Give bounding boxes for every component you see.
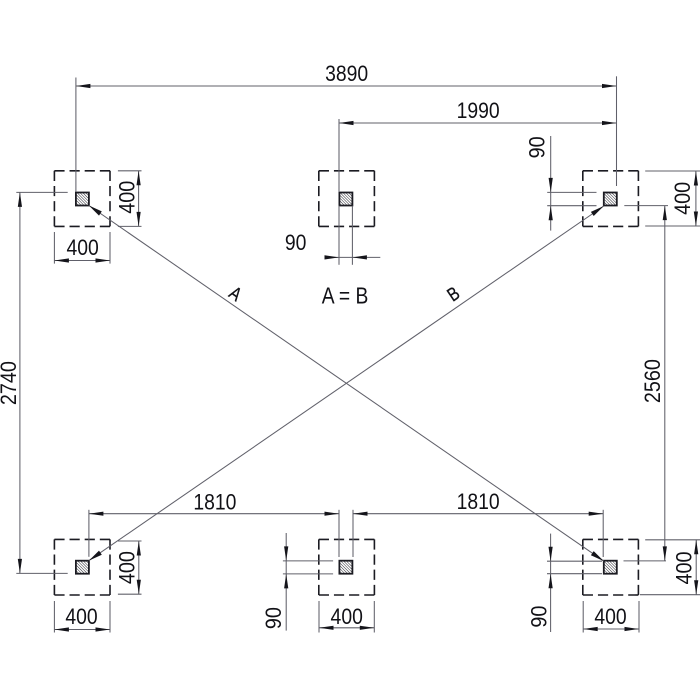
dimension 400 top-right vertical: [645, 171, 700, 226]
dimension 400 bottom-middle: [319, 601, 374, 633]
footing bottom-middle: [319, 539, 375, 595]
footing bottom-left: [54, 539, 110, 595]
dimension 1810 right: [353, 490, 603, 557]
dimension 2740 left: [0, 192, 68, 573]
svg-text:2560: 2560: [641, 359, 665, 403]
label B: [443, 282, 464, 306]
svg-text:400: 400: [331, 605, 363, 629]
dimension 90 top-middle: [285, 206, 380, 265]
svg-text:400: 400: [594, 605, 626, 629]
post top-middle: [339, 193, 352, 206]
footing top-left: [54, 171, 110, 227]
svg-text:2740: 2740: [0, 361, 21, 405]
dimension 400 top-left horizontal: [54, 232, 110, 264]
dimension 90 top-right: [525, 136, 596, 231]
svg-text:400: 400: [115, 551, 139, 584]
dimension 400 bottom-right: [583, 601, 639, 633]
post bottom-left: [76, 561, 89, 574]
dimension 2560 right: [624, 206, 669, 561]
svg-text:90: 90: [262, 607, 286, 629]
dimension 400 bottom-left vertical: [115, 541, 141, 594]
post top-left: [76, 193, 89, 206]
footing top-middle: [319, 171, 375, 227]
label A: [225, 281, 246, 305]
dimension 400 bottom-right vertical: [640, 540, 700, 595]
svg-text:1810: 1810: [457, 490, 500, 514]
svg-text:400: 400: [671, 182, 695, 215]
svg-text:1990: 1990: [457, 99, 500, 123]
svg-text:3890: 3890: [325, 62, 368, 86]
diagonal B: [89, 206, 604, 561]
svg-text:90: 90: [285, 231, 307, 255]
dimension 3890 top: [76, 62, 617, 192]
label A = B: [322, 283, 369, 309]
footing top-right: [583, 171, 639, 227]
dimension 90 bottom-right: [528, 534, 602, 632]
dimension 1810 left: [89, 490, 339, 557]
dimension 400 bottom-left: [54, 601, 110, 633]
svg-text:400: 400: [672, 551, 696, 584]
svg-text:90: 90: [525, 136, 549, 158]
dimension 1990: [339, 99, 617, 192]
svg-text:1810: 1810: [193, 490, 236, 514]
diagonal A: [89, 206, 604, 562]
dimension 400 top-left vertical: [115, 171, 141, 227]
svg-text:400: 400: [65, 605, 97, 629]
footing bottom-right: [583, 539, 639, 595]
post top-right: [604, 193, 617, 206]
svg-text:400: 400: [115, 181, 139, 214]
svg-text:400: 400: [66, 236, 98, 260]
svg-text:90: 90: [528, 606, 552, 628]
dimension 90 bottom-middle: [262, 533, 333, 631]
svg-text:A = B: A = B: [322, 283, 369, 309]
post bottom-middle: [339, 561, 352, 574]
post bottom-right: [604, 561, 617, 574]
